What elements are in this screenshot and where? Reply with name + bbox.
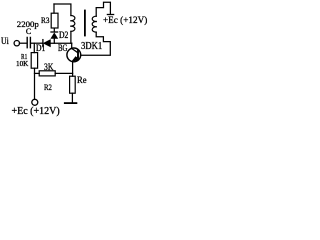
transformer core [84, 11, 86, 36]
ground [65, 102, 77, 104]
resistor R2 3K [35, 71, 73, 76]
wire capacitor to D1 node [31, 42, 43, 44]
resistor R3 [51, 4, 58, 28]
resistor Re [70, 76, 76, 93]
transformer secondary winding L2 [92, 16, 96, 32]
label Re [77, 76, 87, 86]
diode D1 [43, 40, 50, 47]
label C [26, 27, 31, 36]
label 3K [44, 62, 53, 72]
label R3 [41, 15, 49, 25]
terminal +Ec bottom [32, 99, 38, 105]
input terminal Ui [14, 41, 19, 46]
label D1 [36, 43, 45, 53]
wire Re to ground [71, 93, 73, 103]
label 2200p [17, 19, 39, 29]
resistor R1 10K [31, 43, 37, 68]
label +Ec (+12V) bottom [12, 106, 60, 117]
diode D2 [51, 28, 58, 43]
transformer primary winding L1 [71, 15, 75, 31]
label R1 [21, 52, 27, 61]
wire secondary bottom to base loop [81, 32, 111, 55]
wire input to capacitor [19, 42, 26, 44]
wire R1 bottom to +Ec terminal [34, 68, 36, 99]
transistor BG 3DK1 [67, 43, 81, 62]
label Ui [1, 36, 9, 46]
wire primary bottom to collector node [70, 31, 72, 43]
label R2 [44, 82, 52, 92]
label +Ec (+12V) top [103, 15, 147, 25]
label 3DK1 [81, 41, 102, 52]
wire secondary top to +Ec staircase [96, 2, 110, 16]
label BG [58, 43, 67, 53]
capacitor C 2200p [27, 38, 30, 48]
terminal bar +Ec top [107, 14, 113, 16]
wire D1 to collector node [50, 42, 71, 44]
label D2 [59, 30, 68, 40]
emitter wire [72, 61, 74, 76]
wire top rail R3 to primary winding [54, 4, 71, 16]
label 10K [16, 59, 28, 68]
